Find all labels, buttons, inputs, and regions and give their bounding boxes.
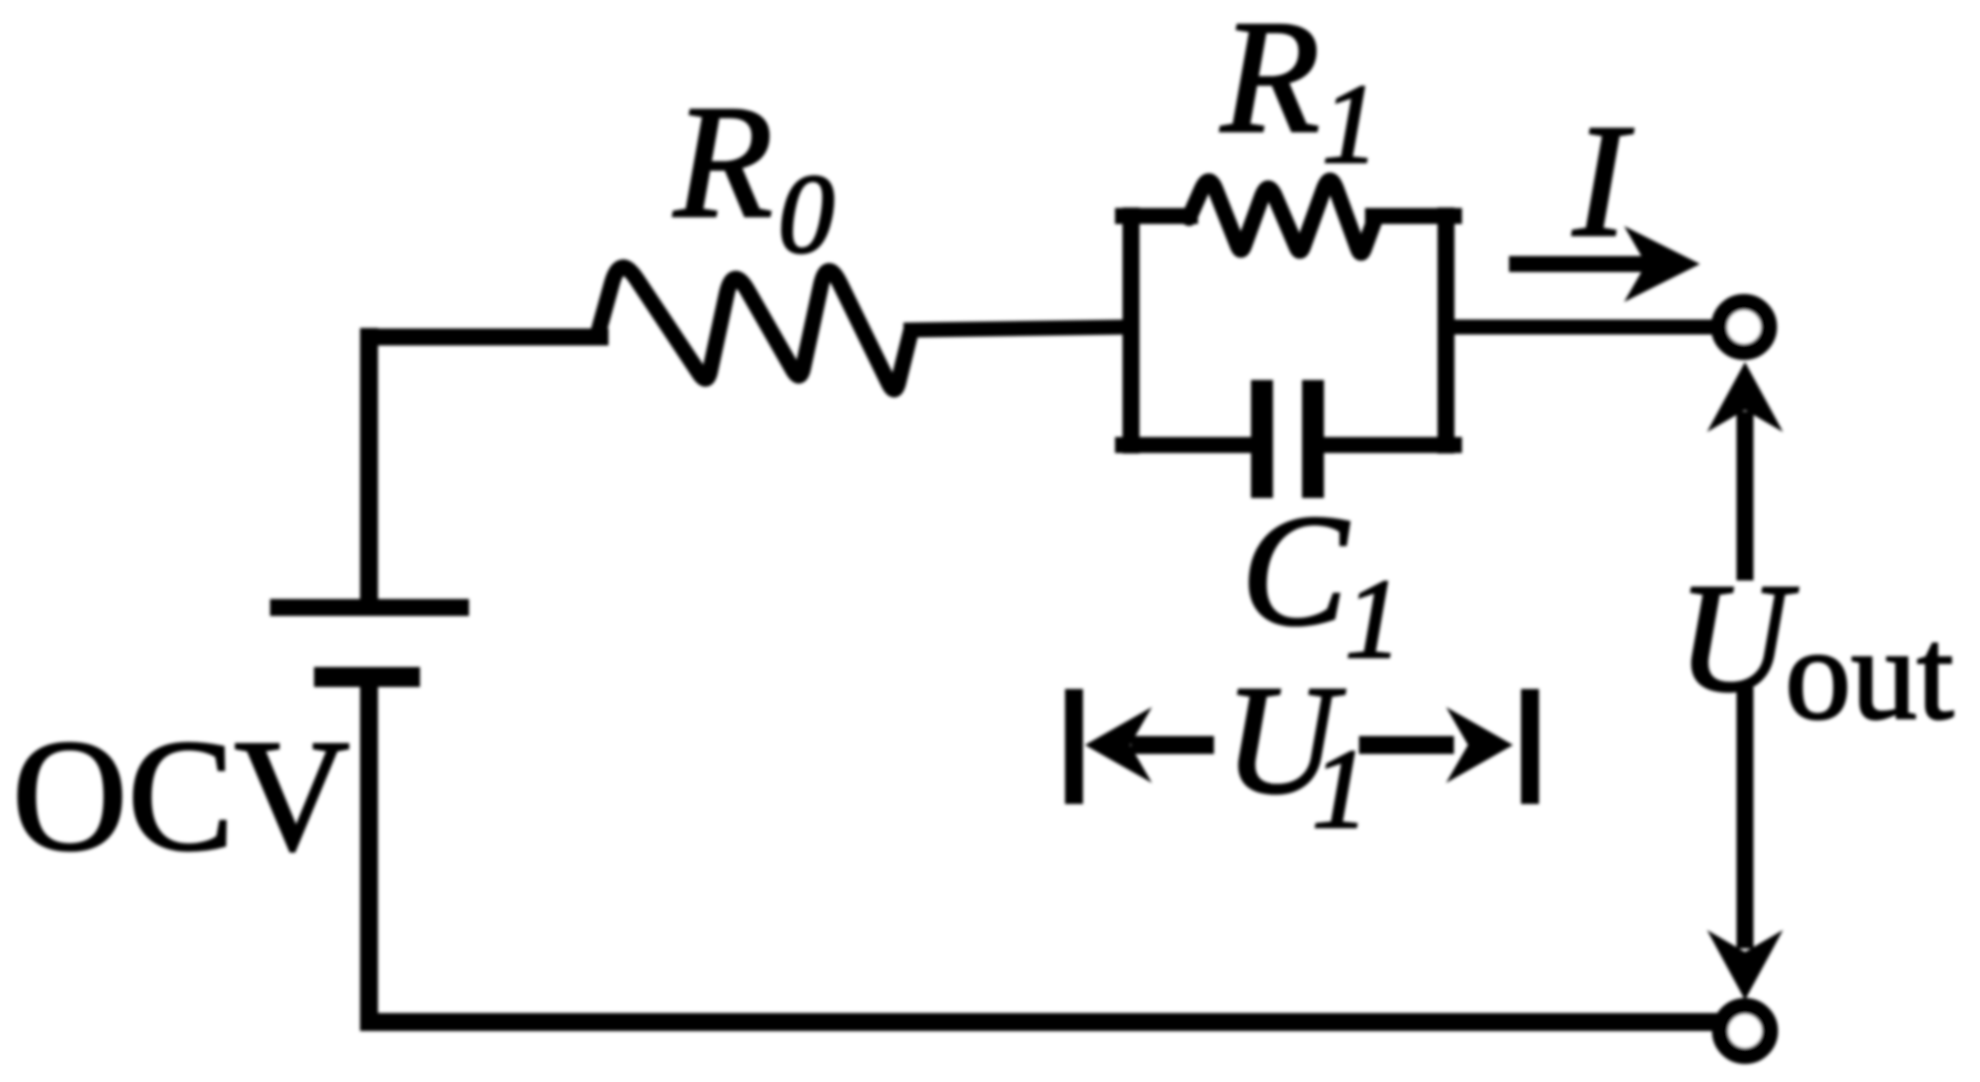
- wire bottom: [369, 1013, 1716, 1031]
- Uout arrow lower shaft: [1737, 696, 1754, 940]
- current arrow I head: [1624, 226, 1700, 302]
- svg-text:I: I: [1572, 92, 1634, 271]
- U1 left arrow shaft: [1140, 736, 1205, 754]
- RC box right side: [1438, 216, 1455, 445]
- U1 left arrow head: [1085, 707, 1152, 783]
- resistor R1: [1189, 180, 1375, 252]
- Uout arrow lower head: [1707, 930, 1783, 1000]
- battery OCV top plate (long): [270, 599, 469, 616]
- RC box top-left wire: [1123, 208, 1190, 224]
- svg-text:1: 1: [1322, 62, 1379, 187]
- svg-text:OCV: OCV: [12, 706, 350, 884]
- svg-text:R: R: [1220, 0, 1320, 167]
- svg-text:1: 1: [1345, 557, 1402, 682]
- RC box bottom-right wire: [1313, 437, 1454, 453]
- wire RC box to output terminal: [1446, 320, 1713, 335]
- capacitor C1 left plate: [1251, 380, 1273, 498]
- svg-text:out: out: [1785, 600, 1954, 747]
- battery OCV bottom plate (short thick): [314, 667, 420, 687]
- svg-text:C: C: [1241, 481, 1350, 659]
- RC box left side: [1123, 216, 1140, 445]
- U1 measure left bar: [1065, 689, 1083, 804]
- Uout arrow upper head: [1707, 362, 1783, 432]
- capacitor C1 right plate: [1302, 380, 1324, 498]
- U1 measure right bar: [1521, 689, 1539, 804]
- wire top-left horizontal: [369, 329, 600, 346]
- wire left vertical lower: [360, 679, 378, 1022]
- svg-text:0: 0: [778, 152, 835, 277]
- wire left vertical upper: [360, 337, 378, 606]
- Uout arrow upper shaft: [1737, 420, 1754, 572]
- svg-text:R: R: [673, 73, 773, 252]
- resistor R0: [597, 267, 911, 389]
- RC box top-right wire: [1373, 208, 1454, 224]
- U1 right arrow shaft: [1368, 736, 1445, 754]
- current arrow I shaft: [1517, 256, 1650, 272]
- output terminal top: [1719, 302, 1769, 352]
- U1 right arrow head: [1446, 707, 1513, 783]
- RC box bottom-left wire: [1123, 437, 1262, 453]
- output terminal bottom: [1720, 1006, 1770, 1056]
- wire R0 to RC box: [911, 327, 1131, 330]
